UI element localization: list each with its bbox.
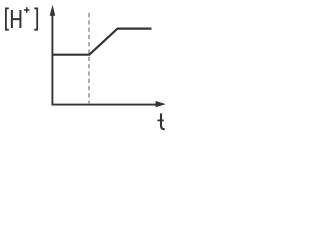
dashed vertical marker line <box>88 13 90 103</box>
x-axis arrowhead <box>156 101 166 107</box>
label [H+] : superscript plus <box>24 7 30 13</box>
y-axis <box>51 12 53 105</box>
label [H+] : letter H <box>12 10 21 28</box>
label [H+] : left bracket <box>6 8 9 29</box>
label [H+] : right bracket <box>34 8 37 29</box>
label t (x-axis variable) : stem with hook <box>161 113 165 129</box>
x-axis <box>52 104 158 106</box>
y-axis arrowhead <box>50 5 56 16</box>
curve: flat segment, rising segment, plateau <box>52 29 151 55</box>
label t (x-axis variable) : crossbar <box>157 119 163 121</box>
